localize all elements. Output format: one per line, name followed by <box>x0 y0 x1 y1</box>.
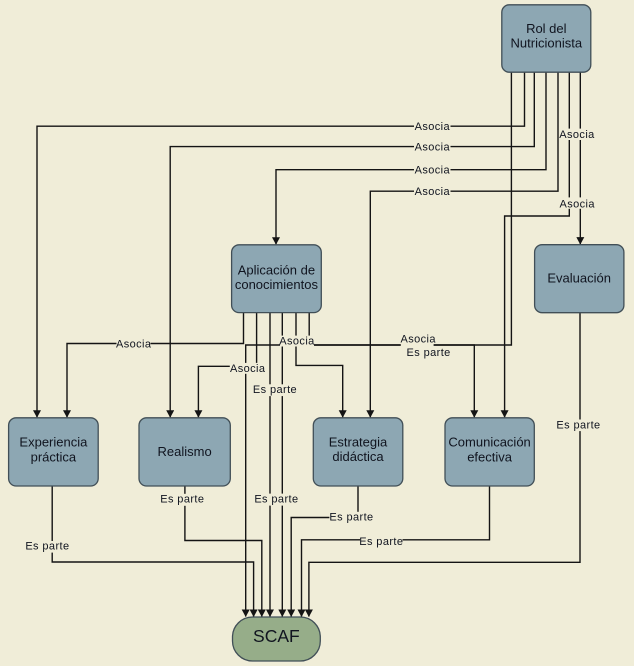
wire Estrategia->SCAF <box>291 486 358 617</box>
concept Evaluacion <box>535 245 624 313</box>
svg-text:Asocia: Asocia <box>415 141 451 153</box>
svg-text:Aplicación de: Aplicación de <box>238 263 315 278</box>
svg-text:Nutricionista: Nutricionista <box>511 36 583 51</box>
svg-text:Asocia: Asocia <box>279 335 315 347</box>
svg-text:didáctica: didáctica <box>332 449 384 464</box>
wire Aplicacion->Estrategia <box>296 313 343 418</box>
wire Rol->Comunicacion <box>505 72 570 417</box>
wire Comunicacion->SCAF <box>302 486 490 617</box>
wire Aplicacion->Experiencia <box>67 313 244 418</box>
wire Evaluacion->SCAF <box>309 313 580 617</box>
label Es parte Comunicacion <box>359 536 403 548</box>
svg-text:Rol del: Rol del <box>526 21 567 36</box>
label Asocia row1 <box>414 120 451 132</box>
wire Rol->SCAF (row M) <box>246 72 512 616</box>
svg-text:Estrategia: Estrategia <box>329 435 388 450</box>
svg-text:Realismo: Realismo <box>158 444 212 459</box>
svg-text:Es parte: Es parte <box>329 511 373 523</box>
wire Experiencia->SCAF <box>52 486 253 617</box>
wire Rol->Realismo (row2) <box>170 72 534 417</box>
label Es parte Realismo <box>160 493 205 505</box>
svg-text:efectiva: efectiva <box>467 449 513 464</box>
svg-text:Comunicación: Comunicación <box>448 434 530 449</box>
svg-text:SCAF: SCAF <box>253 626 300 646</box>
svg-text:Asocia: Asocia <box>400 334 436 346</box>
concept Realismo <box>139 418 230 486</box>
label Asocia Rol-Comunicacion <box>559 129 595 142</box>
wire Aplicacion->Realismo <box>198 313 256 418</box>
wire Rol->Experiencia (row1) <box>37 72 525 417</box>
svg-text:Asocia: Asocia <box>415 121 451 133</box>
svg-text:Experiencia: Experiencia <box>19 434 88 449</box>
concept Rol del Nutricionista <box>502 5 591 72</box>
svg-text:Es parte: Es parte <box>25 541 69 553</box>
svg-text:Es parte: Es parte <box>556 419 600 431</box>
label Es parte central upper <box>253 384 297 396</box>
wire Aplicacion->SCAF a <box>269 313 271 617</box>
label Es parte Evaluacion <box>556 419 600 431</box>
svg-text:Es parte: Es parte <box>254 494 298 506</box>
svg-text:Es parte: Es parte <box>160 493 204 505</box>
concept SCAF <box>233 617 321 661</box>
label Asocia row2 <box>414 141 451 154</box>
label Es parte Estrategia <box>329 511 373 523</box>
wire Aplicacion->SCAF b <box>281 313 283 617</box>
wire Rol->Aplicacion (row3) <box>276 72 546 244</box>
wire Rol->Evaluacion <box>579 72 581 244</box>
concept Estrategia didactica <box>313 418 403 486</box>
concept Aplicacion de conocimientos <box>232 245 322 313</box>
label Es parte Experiencia <box>25 541 69 553</box>
svg-text:Asocia: Asocia <box>116 338 152 350</box>
svg-text:Es parte: Es parte <box>407 347 451 359</box>
svg-text:Asocia: Asocia <box>230 363 266 375</box>
svg-text:Es parte: Es parte <box>359 536 403 548</box>
svg-text:Asocia: Asocia <box>559 198 595 210</box>
label Asocia Aplicacion-Realismo <box>230 363 266 375</box>
wire Rol->Estrategia (row4) <box>370 72 558 417</box>
wire Realismo->SCAF <box>185 486 262 617</box>
svg-text:Es parte: Es parte <box>253 384 297 396</box>
svg-text:conocimientos: conocimientos <box>235 277 319 292</box>
label Es parte central lower <box>254 494 299 506</box>
label Asocia Rol-Evaluacion <box>559 197 595 210</box>
wire Aplicacion->Comunicacion <box>309 313 474 418</box>
label Asocia row M right <box>400 334 436 347</box>
label Asocia row M left <box>279 335 315 347</box>
label Asocia row4 <box>414 185 451 198</box>
label Asocia row3 <box>414 164 451 177</box>
label Asocia Aplicacion-Experiencia <box>116 338 152 350</box>
svg-text:Asocia: Asocia <box>415 164 451 176</box>
svg-text:práctica: práctica <box>31 449 77 464</box>
label Es parte row M <box>407 347 451 359</box>
concept Experiencia practica <box>9 418 99 486</box>
concept Comunicacion efectiva <box>445 418 534 486</box>
svg-text:Evaluación: Evaluación <box>547 271 611 286</box>
svg-text:Asocia: Asocia <box>559 129 595 141</box>
svg-text:Asocia: Asocia <box>415 186 451 198</box>
